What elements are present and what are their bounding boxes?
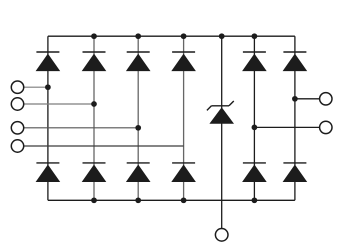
- diode D6 top: [283, 52, 308, 71]
- diode D3 top: [126, 52, 151, 71]
- node phase 1 junction: [45, 84, 51, 90]
- diode D10 bottom: [171, 163, 196, 182]
- node top rail dot 3: [135, 33, 141, 39]
- diode D1 top: [36, 52, 61, 71]
- node right B junction: [252, 125, 258, 131]
- node bottom rail dot 2: [91, 197, 97, 203]
- wire phase 3: [24, 127, 139, 129]
- wire string 6 vertical: [294, 36, 296, 200]
- node top rail dot 5: [252, 33, 258, 39]
- diode D2 top: [82, 52, 107, 71]
- node bottom rail dot 5: [252, 197, 258, 203]
- node top rail dot 4: [181, 33, 187, 39]
- diode D7 bottom: [36, 163, 61, 182]
- terminal B-: [215, 229, 228, 242]
- wire top rail: [48, 35, 295, 37]
- wire string 2 vertical: [93, 36, 95, 200]
- terminal W: [11, 122, 23, 134]
- node right A junction: [292, 96, 298, 102]
- terminal D+: [320, 121, 332, 133]
- node phase 2 junction: [91, 101, 97, 107]
- wire string 1 vertical: [47, 36, 49, 200]
- wire string 3 vertical: [137, 36, 139, 200]
- diode D8 bottom: [82, 163, 107, 182]
- diode D4 top: [171, 52, 196, 71]
- terminal N: [11, 140, 23, 152]
- node bottom rail dot 4: [181, 197, 187, 203]
- wire string 5 vertical: [253, 36, 255, 200]
- wire bottom rail: [48, 199, 295, 201]
- node top rail dot zener: [219, 33, 225, 39]
- zener diode Z1: [207, 101, 234, 124]
- terminal U: [11, 81, 23, 93]
- wire right B: [254, 126, 319, 128]
- wire right A: [295, 98, 320, 100]
- terminal V: [11, 98, 23, 110]
- node top rail dot 2: [91, 33, 97, 39]
- diode D11 bottom: [242, 163, 267, 182]
- wire phase 2: [24, 103, 94, 105]
- wire phase 4: [24, 145, 184, 147]
- node bottom rail dot 3: [135, 197, 141, 203]
- wire zener string vertical: [221, 36, 223, 228]
- diode D5 top: [242, 52, 267, 71]
- diode D9 bottom: [126, 163, 151, 182]
- wire phase 1: [24, 86, 48, 88]
- wire string 4 vertical: [183, 36, 185, 200]
- node phase 3 junction: [135, 125, 141, 131]
- terminal B+: [320, 93, 332, 105]
- diode D12 bottom: [283, 163, 308, 182]
